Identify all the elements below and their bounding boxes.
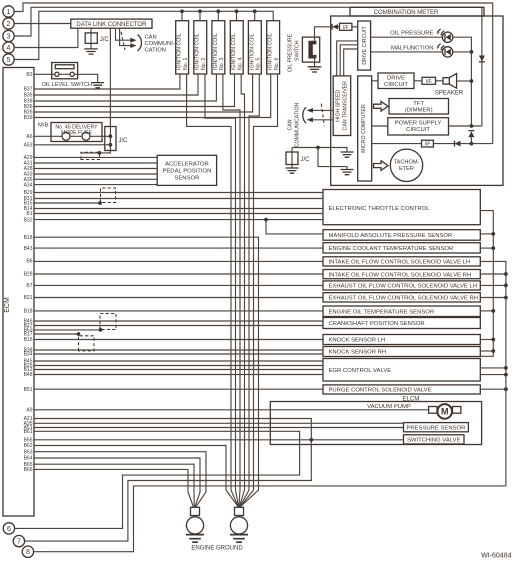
junction dot oiltemp/R1 [491, 309, 495, 313]
manifold absolute pressure sensor box [323, 230, 480, 241]
ELCM box [270, 402, 481, 445]
junction dot coil bus 2 [198, 9, 202, 13]
malfunction lamp [442, 47, 452, 57]
junction connector J/C (meter) [291, 148, 293, 169]
oil level switch terminal L [55, 72, 59, 76]
wire coil bus tap 2 [199, 11, 201, 20]
wire B56 to switching valve [34, 439, 404, 441]
svg-text:IGNITION COIL: IGNITION COIL [268, 33, 274, 70]
svg-text:B62: B62 [24, 443, 33, 449]
svg-text:TACHOM-: TACHOM- [394, 159, 420, 165]
wire intake LH to rail R2 [480, 261, 506, 486]
wire pin4 to data link connector [15, 28, 78, 47]
crankshaft position sensor box [323, 318, 480, 329]
engine ground bolt L [186, 517, 203, 534]
EGR control valve box [323, 359, 480, 382]
svg-text:POWER SUPPLY: POWER SUPPLY [395, 121, 442, 127]
wire B7 to exhaust oil flow control solenoid valve LH [34, 284, 323, 286]
wire transceiver to drive circuit 1 [337, 41, 358, 76]
wire pin2 to data link connector [15, 23, 71, 25]
svg-text:8: 8 [26, 549, 30, 556]
wire micro to drive circuit 2 [372, 80, 378, 82]
junction dot coil bus 4 [235, 9, 239, 13]
ECM connector pin 4 [3, 42, 14, 53]
junction connector J/C (fuse) [105, 127, 116, 151]
junction dot A6/J-C [109, 134, 113, 138]
svg-text:B43: B43 [24, 246, 33, 252]
svg-text:2: 2 [7, 21, 11, 28]
svg-text:B66: B66 [24, 467, 33, 473]
TFT dimmer box [389, 99, 449, 115]
engine ground bolt R [230, 517, 247, 534]
svg-text:MICRO COMPUTER: MICRO COMPUTER [361, 104, 367, 153]
CAN twist box 1 [81, 152, 100, 159]
drive circuit box (speaker) [378, 73, 414, 89]
wire coil bundle 1 funnel [231, 490, 238, 507]
svg-text:(DIMMER): (DIMMER) [405, 108, 433, 114]
wire A34 to APP sensor [34, 184, 157, 186]
wire B45 to EGR [34, 360, 323, 362]
svg-text:B7: B7 [26, 283, 32, 289]
svg-text:SPEAKER: SPEAKER [435, 91, 464, 97]
junction dot coil bus 3 [216, 9, 220, 13]
wire B53 shield [34, 329, 101, 331]
wire meter J/C to ground 2 [318, 148, 347, 170]
ground (engine R) [230, 535, 248, 543]
wire B27 to crankshaft position sensor [34, 325, 323, 327]
left funnel crimp [191, 507, 200, 515]
wire B62 to right funnel [34, 446, 238, 507]
svg-text:SWITCHING VALVE: SWITCHING VALVE [407, 438, 461, 444]
svg-text:A6: A6 [26, 134, 32, 140]
rail diode segment [470, 137, 472, 143]
wire B38 to knock sensor RH [34, 349, 323, 351]
svg-text:A9: A9 [26, 408, 32, 414]
svg-text:No. 5: No. 5 [255, 57, 261, 70]
ignition coil No.5 box [248, 21, 261, 74]
No.45 delivery mode fuse box [51, 123, 102, 142]
svg-text:EXHAUST OIL FLOW CONTROL SOLEN: EXHAUST OIL FLOW CONTROL SOLENOID VALVE … [329, 284, 478, 290]
wire B48 to EGR [34, 374, 323, 376]
wire ECT to rail R1 [480, 247, 493, 249]
ground (oil level switch) [91, 83, 104, 88]
svg-text:TFT: TFT [413, 101, 424, 107]
oil level switch slot [55, 65, 74, 69]
junction dot power/rail [470, 124, 474, 128]
wire B6 to intake oil flow control solenoid valve LH [34, 260, 323, 262]
svg-text:ETER: ETER [399, 166, 414, 172]
svg-text:B18: B18 [24, 309, 33, 315]
svg-text:COMBINATION METER: COMBINATION METER [374, 10, 439, 16]
wire micro to power supply [372, 125, 388, 127]
wire fuse to J/C [90, 135, 110, 137]
junction dot EGR2/R2 [504, 373, 508, 377]
ECM box [3, 68, 34, 517]
ignition coil No.3 box [212, 21, 225, 74]
svg-text:CIRCUIT: CIRCUIT [406, 127, 430, 133]
svg-text:B39: B39 [24, 115, 33, 121]
ignition coil No.4 box [230, 21, 243, 74]
svg-text:ENGINE GROUND: ENGINE GROUND [191, 546, 243, 552]
svg-text:DATA LINK CONNECTOR: DATA LINK CONNECTOR [76, 22, 147, 28]
svg-text:J/C: J/C [301, 157, 311, 163]
svg-text:B16: B16 [24, 337, 33, 343]
oil pressure switch box [302, 37, 319, 62]
CAN branch wire to twist [81, 152, 99, 154]
combination meter outer box [331, 16, 503, 185]
ECM connector pin 7 [13, 535, 24, 546]
wire drive to malfunction lamp [371, 51, 443, 53]
svg-text:B63: B63 [24, 449, 33, 455]
svg-text:B1: B1 [26, 211, 32, 217]
wire coil bundle 6 funnel [240, 490, 253, 507]
tachometer circle [390, 149, 422, 181]
wire knock LH to rail R1 [480, 339, 493, 341]
svg-text:A53: A53 [24, 143, 33, 149]
wire coil bus tap 4 [236, 11, 238, 20]
svg-text:INTAKE OIL FLOW CONTROL SOLENO: INTAKE OIL FLOW CONTROL SOLENOID VALVE L… [329, 260, 471, 266]
svg-text:J/C: J/C [100, 37, 110, 43]
svg-text:CIRCUIT: CIRCUIT [384, 82, 408, 88]
svg-text:DRIVE CIRCUIT: DRIVE CIRCUIT [362, 26, 368, 65]
junction dot twist 3 [99, 328, 103, 332]
junction dot MAP/R1 [491, 232, 495, 236]
wire B18 to engine oil temperature sensor [34, 310, 323, 312]
wire transceiver to drive circuit 3 [344, 49, 358, 76]
ignition coil No.1 box [176, 21, 189, 74]
svg-text:B64: B64 [24, 456, 33, 462]
svg-text:OIL PRESSURE: OIL PRESSURE [390, 31, 433, 37]
wire meter J/C to ground 1 [292, 148, 347, 153]
wire coil 3 ground to bundle [223, 74, 240, 490]
TFT arrow [374, 101, 389, 111]
wire B51 to purge control solenoid valve [34, 388, 323, 390]
engine oil temperature sensor box [323, 306, 480, 317]
wire A6 to fuse [34, 135, 62, 137]
wire oil temp to rail R1 [480, 310, 493, 312]
I/F box 1 [340, 23, 352, 30]
svg-text:DRIVE: DRIVE [387, 76, 405, 82]
ignition coil No.6 box [267, 21, 280, 74]
junction dot meter grounds [316, 146, 320, 150]
pressure sensor box [404, 423, 469, 432]
ground (meter J/C) [286, 168, 299, 173]
wire EGR to rail R2 (2) [480, 374, 506, 376]
svg-text:B34: B34 [24, 352, 33, 358]
wire B1 to ETC [34, 213, 323, 215]
wire B12 to EGR [34, 369, 323, 371]
svg-text:PRESSURE SENSOR: PRESSURE SENSOR [406, 426, 465, 432]
ECM connector pin 8 [22, 546, 33, 557]
diode D2 [332, 24, 338, 29]
CAN twist box 2 [101, 188, 116, 203]
switching valve box [404, 435, 465, 444]
junction dot coil bus 1 [180, 9, 184, 13]
wire B17 shield [34, 333, 79, 335]
oil pressure switch contact [308, 41, 316, 59]
junction dot EGR1/R2 [504, 366, 508, 370]
exhaust oil flow control solenoid valve RH box [323, 293, 480, 302]
wire B63 to left funnel [34, 452, 206, 507]
svg-text:ECM: ECM [4, 297, 11, 313]
svg-text:B51: B51 [24, 387, 33, 393]
svg-text:MANIFOLD ABSOLUTE PRESSURE SEN: MANIFOLD ABSOLUTE PRESSURE SENSOR [329, 233, 453, 239]
svg-text:IGNITION COIL: IGNITION COIL [177, 33, 183, 70]
CAN twist dashes (meter) [321, 104, 324, 126]
wire B65 to left funnel [34, 464, 194, 507]
wire purge to rail R2 [480, 388, 506, 390]
svg-text:COMMUNICATION: COMMUNICATION [295, 102, 301, 147]
wire drive 2 to I/F 2 [414, 80, 422, 82]
vacuum pump motor [429, 407, 437, 414]
svg-text:M/B: M/B [38, 123, 48, 129]
svg-text:EGR CONTROL VALVE: EGR CONTROL VALVE [329, 368, 392, 374]
svg-text:PURGE CONTROL SOLENOID VALVE: PURGE CONTROL SOLENOID VALVE [329, 388, 432, 394]
svg-text:No. 6: No. 6 [274, 57, 280, 70]
wire B32 branch to MAP sensor [266, 220, 323, 234]
junction dot knockRH/R1 [491, 349, 495, 353]
wire coil 5 primary to ECM [34, 74, 253, 112]
svg-text:1: 1 [7, 9, 11, 16]
svg-text:OIL PRESSURE: OIL PRESSURE [288, 33, 294, 72]
wire B66 to left funnel [34, 469, 193, 506]
svg-text:B48: B48 [24, 372, 33, 378]
wire A35 to pressure sensor [34, 422, 404, 424]
ground (transceiver 1) [341, 152, 354, 157]
CAN arrow lower (DLC) [130, 43, 136, 48]
knock sensor LH box [323, 335, 480, 345]
svg-text:MALFUNCTION: MALFUNCTION [391, 45, 434, 51]
wire speaker to rail [457, 80, 472, 82]
wire B16 to knock sensor LH [34, 339, 323, 341]
junction dot purge/R2 [504, 387, 508, 391]
junction dot B32 branch [264, 218, 268, 222]
wire B64 to left funnel [34, 458, 200, 507]
svg-text:M: M [441, 407, 449, 417]
wire oil pressure switch to I/F [315, 27, 333, 43]
wire B21 to exhaust oil flow control solenoid valve RH [34, 297, 323, 299]
svg-text:No. 2: No. 2 [201, 57, 207, 70]
tachometer arrow [374, 161, 389, 171]
ECM connector pin 6 [3, 523, 14, 534]
oil level switch box [52, 63, 78, 79]
wire B3 to oil level switch [34, 73, 55, 75]
junction connector J/C (DLC) [90, 28, 92, 49]
wire A36 to APP sensor [34, 178, 157, 180]
svg-text:ELECTRONIC THROTTLE CONTROL: ELECTRONIC THROTTLE CONTROL [329, 206, 431, 212]
svg-text:CAN TRANSCEIVER: CAN TRANSCEIVER [342, 81, 348, 130]
wire coil bundle 3 funnel [239, 490, 240, 507]
junction dot I/F3 rail [470, 142, 474, 146]
ground (transceiver 2) [341, 170, 354, 175]
wire B31 to ETC [34, 198, 323, 200]
wire coil 6 ground to bundle [254, 74, 278, 490]
CAN twist box 3 [100, 314, 116, 330]
junction dot A53/J-C [109, 143, 113, 147]
svg-text:WI-60484: WI-60484 [481, 553, 511, 560]
wire coil bus tap 3 [217, 11, 219, 20]
wire rail R2 to pin8 [34, 486, 506, 552]
wire DLC to fuse junction [99, 28, 110, 153]
wire B43 to engine coolant temperature sensor [34, 247, 323, 249]
combination meter label box [350, 7, 484, 16]
wire diode D4 to rail A [461, 143, 493, 145]
CAN wire upper (meter) [312, 109, 333, 111]
wire I/F to drive circuit [352, 26, 358, 28]
ECM connector pin 3 [3, 30, 14, 41]
wire coil 1 primary to ECM [34, 74, 180, 89]
oil level switch terminal R [70, 72, 74, 76]
svg-text:ACCELERATOR: ACCELERATOR [165, 161, 209, 167]
svg-text:4: 4 [7, 45, 11, 52]
svg-text:J/C: J/C [119, 138, 129, 144]
wire B25 to EGR [34, 365, 323, 367]
wire coil bundle 4 funnel [239, 490, 244, 507]
wire I/F 3 to diode [433, 143, 454, 145]
junction dot coil bus 5 [253, 9, 257, 13]
right funnel crimp [235, 507, 244, 515]
svg-text:SENSOR: SENSOR [174, 175, 199, 181]
svg-text:B18: B18 [24, 235, 33, 241]
wire diode to I/F [338, 26, 340, 28]
micro computer box [358, 76, 372, 181]
engine coolant temperature sensor box [323, 243, 480, 253]
svg-text:B21: B21 [24, 295, 33, 301]
accelerator pedal position sensor box [157, 155, 216, 185]
wire MAP to rail R1 [480, 233, 493, 235]
junction dot intakeRH/R2 [504, 272, 508, 276]
svg-text:CAN: CAN [145, 35, 157, 41]
wire A29 to APP sensor [34, 156, 157, 158]
svg-text:IGNITION COIL: IGNITION COIL [195, 33, 201, 70]
diode D4 [455, 141, 461, 147]
wire coil 2 primary to ECM [34, 74, 198, 95]
wire transceiver to drive circuit 2 [340, 45, 358, 76]
svg-text:INTAKE OIL FLOW CONTROL SOLENO: INTAKE OIL FLOW CONTROL SOLENOID VALVE R… [329, 272, 472, 278]
left funnel wire [194, 516, 196, 517]
CAN arc (meter) [303, 107, 306, 123]
ECM connector pin 5 [3, 54, 14, 65]
oil pressure lamp [442, 32, 452, 42]
svg-text:B3: B3 [26, 72, 32, 78]
svg-text:KNOCK SENSOR RH: KNOCK SENSOR RH [329, 350, 387, 356]
intake oil flow control solenoid valve RH box [323, 270, 480, 279]
wire B32 to ETC [34, 219, 323, 221]
junction dot twist 2 [98, 201, 102, 205]
svg-text:PEDAL POSITION: PEDAL POSITION [162, 168, 211, 174]
I/F box 2 [422, 77, 436, 84]
CAN stub upper (DLC) [116, 28, 132, 40]
CAN arc (DLC) [138, 35, 142, 52]
wire pin3 to bus B [15, 7, 482, 126]
CAN arrow upper (DLC) [130, 38, 136, 43]
wire malfunction lamp to rail [453, 51, 472, 53]
high speed CAN transceiver box [333, 76, 351, 136]
wire oil pressure lamp to rail [453, 37, 472, 126]
ECM connector pin 2 [3, 18, 14, 29]
svg-text:3: 3 [7, 34, 11, 41]
wire A9 to vacuum pump [34, 409, 429, 411]
wire A33 to APP sensor [34, 173, 157, 175]
svg-text:EXHAUST OIL FLOW CONTROL SOLEN: EXHAUST OIL FLOW CONTROL SOLENOID VALVE … [329, 296, 478, 302]
purge control solenoid valve box [323, 385, 480, 394]
wire coil bundle 5 funnel [240, 490, 249, 507]
fuse link wire [70, 135, 82, 137]
power supply circuit box [388, 118, 449, 135]
wire A28 to APP sensor [34, 168, 157, 170]
svg-text:ENGINE COOLANT TEMPERATURE SEN: ENGINE COOLANT TEMPERATURE SENSOR [329, 246, 454, 252]
fuse terminal R [82, 132, 90, 140]
svg-text:SWITCH: SWITCH [295, 40, 301, 61]
svg-text:CATION: CATION [145, 48, 166, 54]
electronic throttle control box [323, 190, 480, 225]
wire pin5 to coil bus C [15, 11, 274, 59]
wire B61 to pin6 [15, 431, 300, 528]
wire exhaust RH to rail R2 [480, 297, 506, 299]
CAN arrow upper (meter) [307, 108, 313, 113]
knock sensor RH box [323, 347, 480, 357]
wire micro to I/F 3 [372, 143, 422, 145]
svg-text:No. 3: No. 3 [219, 57, 225, 70]
right funnel wire [238, 516, 240, 517]
wire B14 to ETC [34, 208, 323, 210]
diode D1 on bus B [479, 56, 485, 62]
wire drive to oil pressure lamp [371, 36, 443, 38]
wire exhaust LH to rail R2 [480, 284, 506, 286]
wire oil pressure switch to ground [314, 57, 316, 67]
ground (DLC J/C) [84, 49, 98, 54]
wire B46 to crankshaft position sensor [34, 320, 323, 322]
svg-text:KNOCK SENSOR LH: KNOCK SENSOR LH [329, 338, 386, 344]
wire ETC to rail R1 [480, 211, 493, 351]
junction dot exhLH/R2 [504, 284, 508, 288]
wire B28 to intake oil flow control solenoid valve RH [34, 273, 323, 275]
svg-text:I/F: I/F [424, 142, 430, 148]
speaker symbol [443, 78, 449, 84]
wire B18 to right funnel [34, 237, 259, 507]
svg-text:No. 4: No. 4 [237, 57, 243, 70]
wire coil 6 primary to ECM [34, 74, 271, 118]
CAN twist box 4 [79, 336, 95, 351]
wire coil 3 primary to ECM [34, 74, 216, 101]
svg-text:I/F: I/F [343, 25, 349, 31]
svg-text:IGNITION COIL: IGNITION COIL [249, 33, 255, 70]
wire A53 to J/C [34, 144, 110, 146]
wire coil 2 ground to bundle [205, 74, 236, 490]
junction dot speaker/rail [470, 79, 474, 83]
wire coil bus tap 1 [181, 11, 183, 20]
CAN arrow lower (meter) [307, 117, 313, 122]
svg-text:B6: B6 [26, 259, 32, 265]
wire A31 to APP sensor [34, 162, 157, 164]
wire power supply to rails [449, 125, 482, 127]
junction dot malfunction/rail [470, 50, 474, 54]
ground (oil pressure switch) [308, 67, 322, 72]
junction dot ECT/R1 [491, 246, 495, 250]
wire B29 to ETC [34, 192, 323, 194]
wire B15 shield [34, 202, 100, 204]
wire coil bundle 2 funnel [236, 490, 239, 507]
wire coil bus tap 5 [254, 11, 256, 20]
svg-text:6: 6 [7, 526, 11, 533]
svg-text:IGNITION COIL: IGNITION COIL [231, 33, 237, 70]
wire coil 5 ground to bundle [249, 74, 259, 490]
data link connector box [71, 19, 152, 28]
wire knock RH to rail R1 [480, 350, 493, 352]
CAN stub lower (DLC) [120, 28, 132, 45]
svg-text:A34: A34 [24, 182, 33, 188]
svg-text:ENGINE OIL TEMPERATURE SENSOR: ENGINE OIL TEMPERATURE SENSOR [329, 309, 435, 315]
